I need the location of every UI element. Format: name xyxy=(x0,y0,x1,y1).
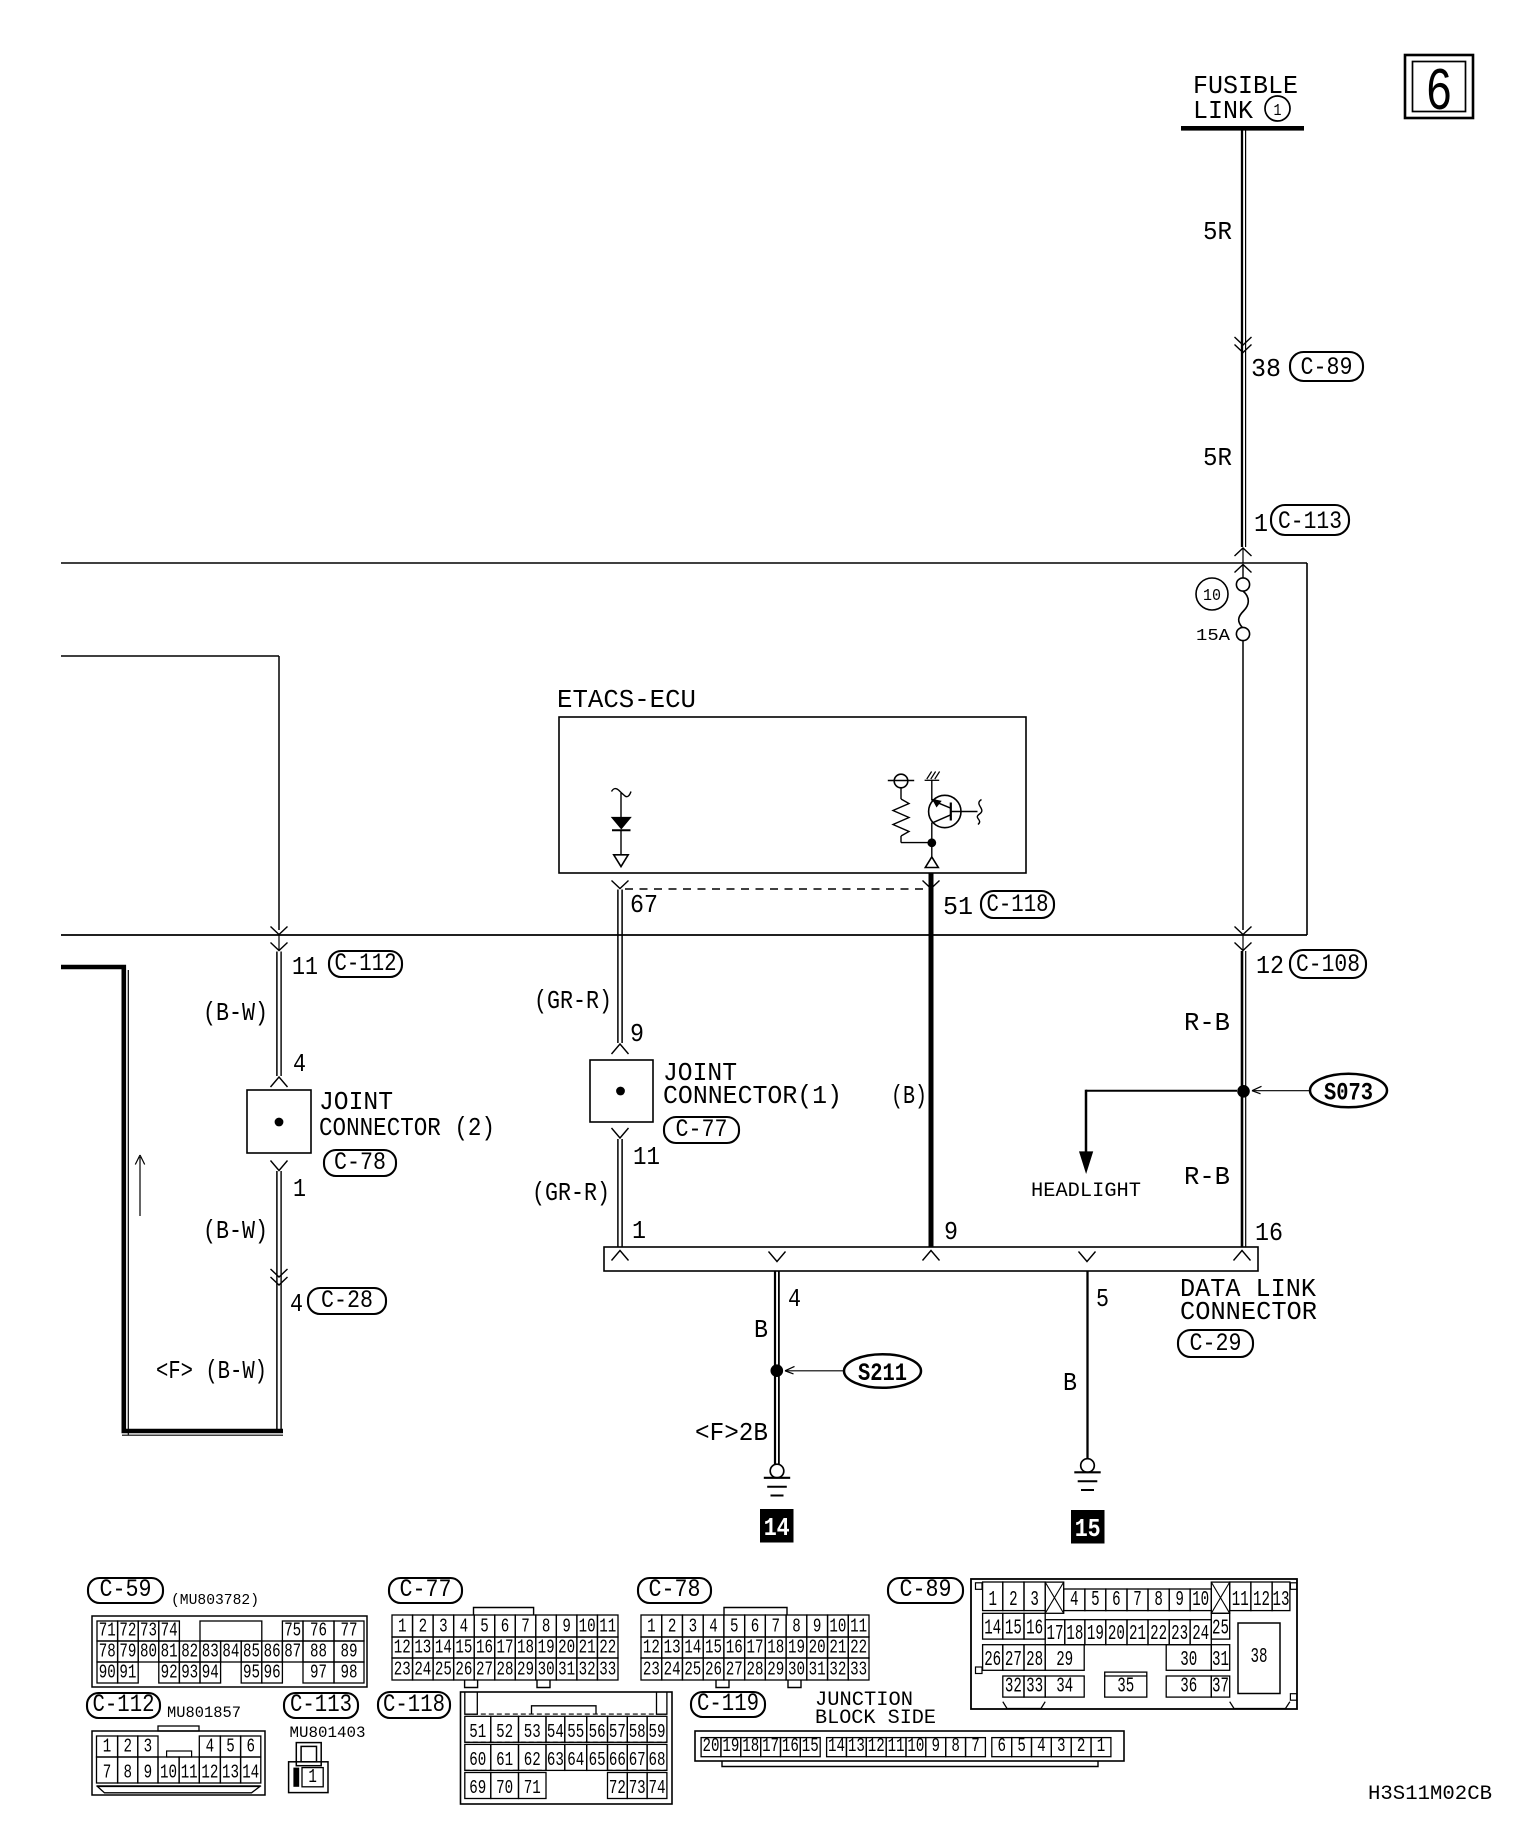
svg-text:6: 6 xyxy=(246,1736,255,1758)
svg-text:C-119: C-119 xyxy=(697,1689,759,1718)
svg-text:C-108: C-108 xyxy=(1296,950,1360,979)
svg-text:13: 13 xyxy=(414,1637,431,1659)
svg-text:24: 24 xyxy=(664,1659,681,1681)
svg-text:23: 23 xyxy=(1171,1623,1188,1646)
svg-text:33: 33 xyxy=(1026,1676,1043,1699)
svg-text:1: 1 xyxy=(1274,102,1282,121)
svg-text:15: 15 xyxy=(1075,1514,1101,1544)
svg-text:H3S11M02CB: H3S11M02CB xyxy=(1368,1783,1492,1806)
svg-text:14: 14 xyxy=(435,1637,452,1659)
svg-text:5: 5 xyxy=(730,1616,739,1638)
svg-text:22: 22 xyxy=(850,1637,867,1659)
svg-text:4: 4 xyxy=(290,1289,303,1319)
svg-text:18: 18 xyxy=(517,1637,534,1659)
svg-text:S073: S073 xyxy=(1324,1079,1373,1108)
svg-text:31: 31 xyxy=(809,1659,826,1681)
svg-text:32: 32 xyxy=(1005,1676,1022,1699)
svg-text:12: 12 xyxy=(868,1735,885,1757)
svg-text:4: 4 xyxy=(1037,1735,1046,1757)
svg-text:86: 86 xyxy=(264,1641,281,1663)
svg-text:76: 76 xyxy=(310,1620,327,1642)
svg-text:(MU803782): (MU803782) xyxy=(171,1592,259,1609)
svg-text:MU801857: MU801857 xyxy=(167,1704,241,1722)
svg-text:10: 10 xyxy=(907,1735,924,1757)
svg-text:1: 1 xyxy=(103,1736,112,1758)
svg-text:51: 51 xyxy=(943,892,973,922)
svg-text:S211: S211 xyxy=(858,1359,907,1388)
svg-text:80: 80 xyxy=(140,1641,157,1663)
svg-text:18: 18 xyxy=(1066,1623,1083,1646)
svg-text:1: 1 xyxy=(647,1616,656,1638)
svg-text:14: 14 xyxy=(984,1618,1001,1641)
svg-text:23: 23 xyxy=(643,1659,660,1681)
svg-text:12: 12 xyxy=(643,1637,660,1659)
svg-text:82: 82 xyxy=(181,1641,198,1663)
svg-text:36: 36 xyxy=(1180,1676,1197,1699)
svg-text:5: 5 xyxy=(1096,1284,1109,1314)
svg-text:2: 2 xyxy=(1077,1735,1086,1757)
svg-text:93: 93 xyxy=(181,1662,198,1684)
svg-text:5: 5 xyxy=(1017,1735,1026,1757)
svg-text:31: 31 xyxy=(1212,1649,1229,1672)
svg-text:12: 12 xyxy=(201,1762,218,1784)
svg-text:8: 8 xyxy=(123,1762,132,1784)
svg-text:65: 65 xyxy=(589,1749,606,1771)
svg-text:7: 7 xyxy=(971,1735,980,1757)
svg-text:90: 90 xyxy=(99,1662,116,1684)
svg-text:(GR-R): (GR-R) xyxy=(534,986,612,1016)
svg-text:19: 19 xyxy=(1087,1623,1104,1646)
svg-text:94: 94 xyxy=(202,1662,219,1684)
svg-text:83: 83 xyxy=(202,1641,219,1663)
svg-text:13: 13 xyxy=(1273,1589,1290,1612)
svg-text:38: 38 xyxy=(1251,354,1281,384)
svg-text:2: 2 xyxy=(668,1616,677,1638)
svg-text:21: 21 xyxy=(579,1637,596,1659)
svg-text:10: 10 xyxy=(1203,587,1221,606)
svg-text:4: 4 xyxy=(206,1736,215,1758)
svg-text:CONNECTOR: CONNECTOR xyxy=(1180,1297,1317,1327)
svg-text:19: 19 xyxy=(722,1735,739,1757)
svg-text:6: 6 xyxy=(1426,60,1453,128)
svg-text:13: 13 xyxy=(664,1637,681,1659)
svg-text:31: 31 xyxy=(558,1659,575,1681)
svg-text:58: 58 xyxy=(629,1721,646,1743)
svg-text:28: 28 xyxy=(1026,1649,1043,1672)
svg-text:3: 3 xyxy=(1057,1735,1066,1757)
svg-text:9: 9 xyxy=(630,1019,644,1049)
svg-text:38: 38 xyxy=(1251,1646,1268,1669)
svg-text:18: 18 xyxy=(767,1637,784,1659)
svg-text:MU801403: MU801403 xyxy=(290,1724,366,1742)
svg-text:1: 1 xyxy=(632,1216,646,1246)
svg-text:24: 24 xyxy=(414,1659,431,1681)
svg-text:98: 98 xyxy=(341,1662,358,1684)
svg-text:96: 96 xyxy=(264,1662,281,1684)
svg-text:C-77: C-77 xyxy=(400,1575,452,1604)
svg-text:C-112: C-112 xyxy=(93,1690,155,1719)
svg-text:28: 28 xyxy=(747,1659,764,1681)
svg-text:11: 11 xyxy=(850,1616,867,1638)
svg-text:1: 1 xyxy=(1097,1735,1106,1757)
svg-text:30: 30 xyxy=(1180,1649,1197,1672)
svg-text:1: 1 xyxy=(308,1766,317,1788)
svg-text:9: 9 xyxy=(1175,1589,1184,1612)
svg-text:89: 89 xyxy=(341,1641,358,1663)
svg-text:LINK: LINK xyxy=(1193,96,1253,126)
svg-text:1: 1 xyxy=(398,1616,407,1638)
svg-text:64: 64 xyxy=(567,1749,584,1771)
svg-text:61: 61 xyxy=(496,1749,513,1771)
svg-text:15: 15 xyxy=(705,1637,722,1659)
svg-text:C-118: C-118 xyxy=(383,1690,445,1719)
svg-text:ETACS-ECU: ETACS-ECU xyxy=(557,685,696,715)
svg-text:C-113: C-113 xyxy=(1278,507,1342,536)
svg-text:(B-W): (B-W) xyxy=(203,1216,268,1246)
svg-text:BLOCK SIDE: BLOCK SIDE xyxy=(815,1707,936,1730)
svg-text:13: 13 xyxy=(848,1735,865,1757)
svg-text:9: 9 xyxy=(932,1735,941,1757)
svg-text:14: 14 xyxy=(242,1762,259,1784)
svg-text:27: 27 xyxy=(476,1659,493,1681)
svg-text:R-B: R-B xyxy=(1184,1162,1230,1192)
svg-text:57: 57 xyxy=(609,1721,626,1743)
svg-text:B: B xyxy=(754,1315,768,1345)
svg-text:97: 97 xyxy=(310,1662,327,1684)
svg-text:29: 29 xyxy=(517,1659,534,1681)
svg-text:29: 29 xyxy=(767,1659,784,1681)
svg-text:68: 68 xyxy=(649,1749,666,1771)
svg-text:81: 81 xyxy=(161,1641,178,1663)
svg-text:C-59: C-59 xyxy=(100,1575,152,1604)
svg-text:16: 16 xyxy=(476,1637,493,1659)
svg-text:3: 3 xyxy=(144,1736,153,1758)
svg-text:72: 72 xyxy=(119,1620,136,1642)
svg-text:37: 37 xyxy=(1212,1676,1229,1699)
svg-text:CONNECTOR(1): CONNECTOR(1) xyxy=(663,1081,842,1111)
svg-text:77: 77 xyxy=(341,1620,358,1642)
svg-text:53: 53 xyxy=(524,1721,541,1743)
svg-text:72: 72 xyxy=(609,1777,626,1799)
svg-text:7: 7 xyxy=(771,1616,780,1638)
svg-text:18: 18 xyxy=(742,1735,759,1757)
svg-text:71: 71 xyxy=(524,1777,541,1799)
svg-text:7: 7 xyxy=(103,1762,112,1784)
svg-text:12: 12 xyxy=(1253,1589,1270,1612)
svg-text:79: 79 xyxy=(119,1641,136,1663)
svg-text:15: 15 xyxy=(802,1735,819,1757)
svg-text:23: 23 xyxy=(394,1659,411,1681)
svg-text:55: 55 xyxy=(567,1721,584,1743)
svg-text:4: 4 xyxy=(788,1284,801,1314)
svg-text:15: 15 xyxy=(455,1637,472,1659)
svg-text:CONNECTOR (2): CONNECTOR (2) xyxy=(319,1113,495,1143)
svg-text:66: 66 xyxy=(609,1749,626,1771)
svg-text:(B): (B) xyxy=(891,1081,927,1111)
svg-text:22: 22 xyxy=(1150,1623,1167,1646)
svg-text:16: 16 xyxy=(782,1735,799,1757)
svg-text:4: 4 xyxy=(293,1049,306,1079)
svg-text:70: 70 xyxy=(496,1777,513,1799)
svg-text:28: 28 xyxy=(497,1659,514,1681)
svg-text:8: 8 xyxy=(1154,1589,1163,1612)
svg-text:9: 9 xyxy=(944,1217,958,1247)
svg-text:B: B xyxy=(1063,1368,1077,1398)
svg-text:54: 54 xyxy=(547,1721,564,1743)
svg-text:26: 26 xyxy=(984,1649,1001,1672)
svg-text:C-28: C-28 xyxy=(321,1286,373,1315)
svg-text:11: 11 xyxy=(292,952,318,982)
svg-text:10: 10 xyxy=(579,1616,596,1638)
svg-text:1: 1 xyxy=(293,1174,306,1204)
svg-text:78: 78 xyxy=(99,1641,116,1663)
svg-text:3: 3 xyxy=(1030,1589,1039,1612)
svg-text:87: 87 xyxy=(284,1641,301,1663)
svg-text:9: 9 xyxy=(144,1762,153,1784)
svg-text:56: 56 xyxy=(589,1721,606,1743)
svg-text:C-89: C-89 xyxy=(1301,353,1353,382)
svg-text:(B-W): (B-W) xyxy=(203,998,268,1028)
svg-text:20: 20 xyxy=(809,1637,826,1659)
svg-text:11: 11 xyxy=(888,1735,905,1757)
svg-text:30: 30 xyxy=(538,1659,555,1681)
svg-text:C-118: C-118 xyxy=(987,890,1049,919)
svg-text:10: 10 xyxy=(829,1616,846,1638)
svg-text:6: 6 xyxy=(1112,1589,1121,1612)
svg-text:52: 52 xyxy=(496,1721,513,1743)
svg-text:10: 10 xyxy=(1192,1589,1209,1612)
svg-text:<F>2B: <F>2B xyxy=(695,1418,768,1448)
svg-text:(GR-R): (GR-R) xyxy=(532,1178,610,1208)
svg-text:C-113: C-113 xyxy=(290,1690,352,1719)
svg-text:59: 59 xyxy=(649,1721,666,1743)
svg-text:14: 14 xyxy=(764,1513,790,1543)
svg-text:6: 6 xyxy=(751,1616,760,1638)
svg-text:5: 5 xyxy=(480,1616,489,1638)
svg-text:62: 62 xyxy=(524,1749,541,1771)
svg-text:6: 6 xyxy=(997,1735,1006,1757)
svg-text:16: 16 xyxy=(1026,1618,1043,1641)
svg-text:88: 88 xyxy=(310,1641,327,1663)
svg-text:1: 1 xyxy=(988,1589,997,1612)
svg-text:14: 14 xyxy=(684,1637,701,1659)
svg-text:22: 22 xyxy=(599,1637,616,1659)
svg-text:5R: 5R xyxy=(1203,217,1232,247)
svg-text:6: 6 xyxy=(501,1616,510,1638)
svg-text:<F> (B-W): <F> (B-W) xyxy=(156,1356,267,1386)
svg-text:32: 32 xyxy=(579,1659,596,1681)
svg-text:15: 15 xyxy=(1005,1618,1022,1641)
svg-text:92: 92 xyxy=(161,1662,178,1684)
svg-text:C-78: C-78 xyxy=(649,1575,701,1604)
svg-text:5: 5 xyxy=(226,1736,235,1758)
svg-text:33: 33 xyxy=(599,1659,616,1681)
svg-text:25: 25 xyxy=(1212,1618,1229,1641)
svg-text:34: 34 xyxy=(1056,1676,1073,1699)
svg-text:67: 67 xyxy=(630,890,658,920)
svg-text:3: 3 xyxy=(439,1616,448,1638)
svg-text:19: 19 xyxy=(788,1637,805,1659)
svg-text:20: 20 xyxy=(558,1637,575,1659)
svg-text:33: 33 xyxy=(850,1659,867,1681)
svg-text:20: 20 xyxy=(1108,1623,1125,1646)
svg-text:17: 17 xyxy=(497,1637,514,1659)
svg-text:1: 1 xyxy=(1254,509,1268,539)
svg-text:17: 17 xyxy=(1047,1623,1064,1646)
svg-text:C-78: C-78 xyxy=(334,1148,386,1177)
svg-text:3: 3 xyxy=(689,1616,698,1638)
svg-text:2: 2 xyxy=(419,1616,428,1638)
svg-text:17: 17 xyxy=(762,1735,779,1757)
svg-text:71: 71 xyxy=(99,1620,116,1642)
svg-text:69: 69 xyxy=(469,1777,486,1799)
svg-text:26: 26 xyxy=(705,1659,722,1681)
svg-text:29: 29 xyxy=(1056,1649,1073,1672)
svg-text:32: 32 xyxy=(829,1659,846,1681)
svg-text:16: 16 xyxy=(1255,1218,1283,1248)
svg-text:HEADLIGHT: HEADLIGHT xyxy=(1031,1180,1141,1203)
svg-text:4: 4 xyxy=(709,1616,718,1638)
svg-text:8: 8 xyxy=(792,1616,801,1638)
svg-text:C-112: C-112 xyxy=(335,949,397,978)
svg-text:74: 74 xyxy=(649,1777,666,1799)
svg-text:51: 51 xyxy=(469,1721,486,1743)
svg-text:11: 11 xyxy=(181,1762,198,1784)
svg-text:C-29: C-29 xyxy=(1190,1329,1242,1358)
svg-text:73: 73 xyxy=(629,1777,646,1799)
svg-text:C-89: C-89 xyxy=(900,1575,952,1604)
svg-text:60: 60 xyxy=(469,1749,486,1771)
svg-text:9: 9 xyxy=(813,1616,822,1638)
svg-text:25: 25 xyxy=(684,1659,701,1681)
svg-text:24: 24 xyxy=(1192,1623,1209,1646)
svg-text:2: 2 xyxy=(1009,1589,1018,1612)
svg-text:13: 13 xyxy=(222,1762,239,1784)
svg-text:73: 73 xyxy=(140,1620,157,1642)
svg-text:67: 67 xyxy=(629,1749,646,1771)
svg-text:84: 84 xyxy=(222,1641,239,1663)
svg-text:27: 27 xyxy=(726,1659,743,1681)
svg-text:12: 12 xyxy=(1256,951,1284,981)
svg-text:91: 91 xyxy=(119,1662,136,1684)
svg-text:85: 85 xyxy=(243,1641,260,1663)
svg-text:5: 5 xyxy=(1091,1589,1100,1612)
svg-text:9: 9 xyxy=(562,1616,571,1638)
svg-text:25: 25 xyxy=(435,1659,452,1681)
svg-text:11: 11 xyxy=(633,1142,660,1172)
svg-text:26: 26 xyxy=(455,1659,472,1681)
svg-text:17: 17 xyxy=(747,1637,764,1659)
svg-text:11: 11 xyxy=(599,1616,616,1638)
svg-text:2: 2 xyxy=(123,1736,132,1758)
svg-text:75: 75 xyxy=(284,1620,301,1642)
svg-text:35: 35 xyxy=(1117,1676,1134,1699)
svg-text:C-77: C-77 xyxy=(676,1115,728,1144)
svg-text:7: 7 xyxy=(1133,1589,1142,1612)
svg-text:21: 21 xyxy=(829,1637,846,1659)
svg-text:11: 11 xyxy=(1232,1589,1249,1612)
svg-text:R-B: R-B xyxy=(1184,1008,1230,1038)
svg-text:10: 10 xyxy=(160,1762,177,1784)
svg-text:4: 4 xyxy=(460,1616,469,1638)
svg-text:12: 12 xyxy=(394,1637,411,1659)
svg-text:16: 16 xyxy=(726,1637,743,1659)
svg-text:8: 8 xyxy=(542,1616,551,1638)
svg-text:63: 63 xyxy=(547,1749,564,1771)
svg-text:8: 8 xyxy=(951,1735,960,1757)
svg-text:21: 21 xyxy=(1129,1623,1146,1646)
svg-text:15A: 15A xyxy=(1196,627,1231,646)
svg-text:19: 19 xyxy=(538,1637,555,1659)
svg-text:20: 20 xyxy=(703,1735,720,1757)
svg-text:95: 95 xyxy=(243,1662,260,1684)
svg-text:30: 30 xyxy=(788,1659,805,1681)
svg-text:7: 7 xyxy=(521,1616,530,1638)
svg-text:4: 4 xyxy=(1070,1589,1079,1612)
svg-text:27: 27 xyxy=(1005,1649,1022,1672)
svg-text:14: 14 xyxy=(828,1735,845,1757)
svg-text:5R: 5R xyxy=(1203,443,1232,473)
svg-text:74: 74 xyxy=(161,1620,178,1642)
